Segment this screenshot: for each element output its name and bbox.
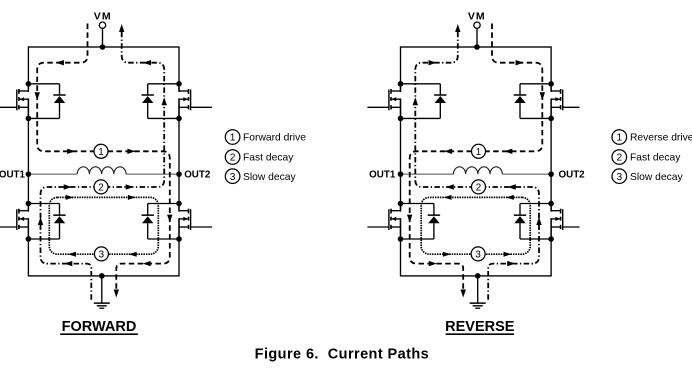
junction ground <box>99 273 105 279</box>
transistor Q4 (low-side right) <box>179 204 191 240</box>
arrowheads path 3 forward <box>66 195 137 257</box>
numbered circle 1 reverse <box>472 144 486 158</box>
diode D2 <box>28 204 65 240</box>
arrowheads path 1 reverse <box>407 60 545 298</box>
svg-text:3: 3 <box>99 249 105 260</box>
junction VM <box>474 44 480 50</box>
svg-text:Slow decay: Slow decay <box>243 172 297 183</box>
node OUT2 <box>502 170 585 181</box>
junction dots on rails <box>398 81 554 242</box>
svg-text:VM: VM <box>94 11 112 23</box>
arrowheads path 2 forward <box>38 24 167 266</box>
svg-text:3: 3 <box>230 172 236 183</box>
node OUT1 <box>369 170 453 181</box>
svg-text:Figure 6. Current Paths: Figure 6. Current Paths <box>255 347 429 363</box>
transistor Q3 (high-side right) <box>179 84 191 119</box>
wire current path 1 forward drive (dashed) <box>37 24 170 294</box>
gate wire of Q1 (high-side left) <box>563 106 580 108</box>
junction VM <box>100 44 106 50</box>
node VM terminal <box>468 11 486 47</box>
diode D3 <box>401 84 447 119</box>
svg-text:1: 1 <box>98 147 103 158</box>
svg-text:2: 2 <box>476 182 481 193</box>
label REVERSE <box>445 319 515 335</box>
ground <box>94 276 110 308</box>
svg-text:1: 1 <box>476 147 481 158</box>
wire current path 3 forward slow decay (dotted loop) <box>49 197 158 254</box>
svg-text:FORWARD: FORWARD <box>62 319 137 335</box>
svg-text:2: 2 <box>98 182 103 193</box>
numbered circle 2 reverse <box>472 180 486 194</box>
diode D1 <box>28 84 65 119</box>
transistor Q1 (high-side left) <box>551 84 563 119</box>
inductor (motor winding) <box>453 167 502 174</box>
gate wire of Q3 (high-side right) <box>367 106 389 108</box>
arrowheads path 3 reverse <box>443 195 514 257</box>
node OUT2 <box>126 170 211 181</box>
junction ground <box>475 273 481 279</box>
transistor Q3 (high-side right) <box>389 84 401 119</box>
diode D4 <box>142 204 180 240</box>
junction dots on rails <box>26 81 182 242</box>
transistor Q1 (high-side left) <box>17 84 29 119</box>
svg-text:3: 3 <box>475 249 481 260</box>
diode D4 <box>401 204 441 240</box>
wire current path 2 forward fast decay (dash-dot) <box>41 28 165 300</box>
svg-text:REVERSE: REVERSE <box>445 319 515 335</box>
svg-text:OUT2: OUT2 <box>559 170 586 181</box>
wire current path 1 reverse drive (dashed) <box>410 24 543 294</box>
svg-text:2: 2 <box>230 153 236 164</box>
numbered circle 2 forward <box>94 180 108 194</box>
svg-text:OUT2: OUT2 <box>184 170 211 181</box>
inductor (motor winding) <box>77 167 126 174</box>
numbered circle 3 forward <box>94 247 108 261</box>
wire gaps at transistors <box>28 92 179 218</box>
node VM terminal <box>94 11 112 47</box>
transistor Q2 (low-side left) <box>17 204 29 240</box>
svg-text:3: 3 <box>616 172 622 183</box>
numbered circle 3 reverse <box>471 247 485 261</box>
svg-text:Slow decay: Slow decay <box>630 172 684 183</box>
legend reverse <box>612 130 692 184</box>
arrowheads path 2 reverse <box>413 24 542 266</box>
gate wire of Q4 (low-side right) <box>191 226 213 228</box>
transistor Q4 (low-side right) <box>389 204 401 240</box>
gate wire of Q1 (high-side left) <box>0 106 17 108</box>
H-bridge outline wire <box>401 47 552 276</box>
svg-text:1: 1 <box>230 133 236 144</box>
wire current path 3 reverse slow decay (dotted loop) <box>421 197 530 254</box>
gate wire of Q3 (high-side right) <box>191 106 213 108</box>
svg-text:Fast decay: Fast decay <box>243 153 294 164</box>
svg-text:Fast decay: Fast decay <box>630 153 681 164</box>
gate wire of Q2 (low-side left) <box>563 226 580 228</box>
diode D3 <box>142 84 180 119</box>
svg-text:VM: VM <box>468 11 486 23</box>
wire gaps at transistors <box>401 92 552 218</box>
gate wire of Q4 (low-side right) <box>367 226 389 228</box>
svg-text:OUT1: OUT1 <box>0 170 26 181</box>
svg-text:1: 1 <box>616 133 622 144</box>
svg-text:OUT1: OUT1 <box>369 170 396 181</box>
node OUT1 <box>0 170 77 181</box>
svg-text:Forward drive: Forward drive <box>243 133 306 144</box>
gate wire of Q2 (low-side left) <box>0 226 17 228</box>
ground <box>470 276 486 308</box>
numbered circle 1 forward <box>94 144 108 158</box>
label FORWARD <box>60 319 138 335</box>
svg-text:2: 2 <box>616 153 622 164</box>
transistor Q2 (low-side left) <box>551 204 563 240</box>
svg-text:Reverse drive: Reverse drive <box>630 133 692 144</box>
legend forward <box>225 130 306 184</box>
diode D2 <box>514 204 551 240</box>
wire current path 2 reverse fast decay (dash-dot) <box>415 28 539 300</box>
H-bridge outline wire <box>28 47 179 276</box>
arrowheads path 1 forward <box>35 60 173 298</box>
diode D1 <box>514 84 551 119</box>
